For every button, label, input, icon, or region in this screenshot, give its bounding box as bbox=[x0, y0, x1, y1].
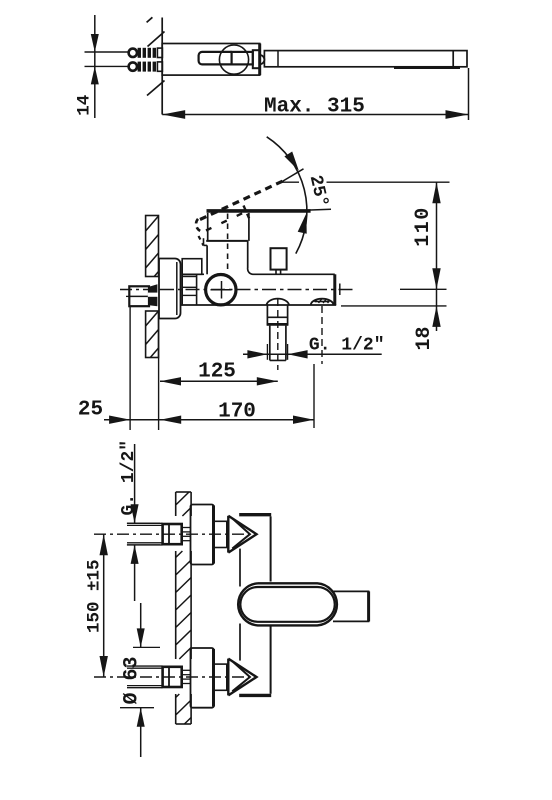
middle body centerline bbox=[120, 289, 160, 291]
top view wall tick upper bbox=[148, 32, 165, 47]
g12b line lower bbox=[134, 545, 136, 601]
arc arrow upper bbox=[284, 152, 299, 171]
bottom oval outer bbox=[238, 583, 337, 625]
ext line x314 bbox=[313, 364, 315, 428]
svg-text:110: 110 bbox=[412, 206, 435, 247]
dim110 top ext b bbox=[327, 181, 450, 183]
svg-text:G. 1/2": G. 1/2" bbox=[119, 440, 139, 516]
svg-text:170: 170 bbox=[218, 401, 256, 424]
g12b arrow lower bbox=[131, 545, 139, 564]
dim170 arrow right bbox=[293, 416, 314, 424]
svg-text:18: 18 bbox=[413, 326, 436, 350]
top view handle rod bbox=[199, 52, 232, 65]
dim63 line lower bbox=[140, 708, 142, 757]
middle wall strip lower bbox=[146, 311, 159, 358]
bottom body left edge upper bbox=[239, 549, 241, 587]
middle body end cap thick bbox=[333, 274, 336, 305]
top view spout inner line bbox=[277, 51, 279, 67]
middle outlet ext right bbox=[287, 344, 289, 360]
dim150 line bbox=[103, 534, 105, 677]
g12b arrow upper bbox=[131, 504, 139, 523]
dim25 arrow bbox=[109, 416, 130, 424]
middle union nut tick bbox=[126, 295, 129, 297]
dim max315 line bbox=[162, 114, 468, 116]
middle handle block left bbox=[207, 213, 209, 241]
bottom body right edge upper bbox=[270, 516, 272, 581]
g12mid arrow right bbox=[288, 350, 308, 358]
middle housing left edge bbox=[196, 274, 198, 305]
dim63 arrow upper bbox=[137, 628, 145, 647]
bottom union pipe+nut bottom bbox=[127, 665, 163, 667]
dim63 arrow lower bbox=[137, 708, 145, 727]
g12b line upper bbox=[134, 444, 136, 523]
middle outlet pipe bbox=[269, 326, 271, 361]
top view wall tick small top bbox=[147, 17, 153, 22]
dim 14 ext line upper bbox=[85, 51, 131, 53]
bottom union centerline top bbox=[94, 533, 250, 535]
bottom wall strip left edge bbox=[175, 492, 177, 516]
dashed lever right edge bbox=[244, 206, 251, 222]
arc 25deg bbox=[267, 137, 307, 254]
bottom oval inner bbox=[240, 587, 334, 622]
middle column right edge bbox=[247, 241, 249, 268]
dim max315 right ext bbox=[468, 68, 470, 120]
middle plug centerline dashed bbox=[321, 306, 323, 364]
dim63 ext lower bbox=[120, 707, 154, 709]
svg-text:14: 14 bbox=[75, 95, 95, 116]
top view handle block bbox=[232, 52, 253, 65]
middle diverter knob bbox=[271, 248, 287, 269]
middle escutcheon bbox=[159, 259, 181, 319]
dim18 bottom ext bbox=[341, 305, 447, 307]
middle plug boss bbox=[311, 299, 334, 305]
middle body end tick bbox=[339, 284, 341, 296]
g12mid line bbox=[243, 353, 382, 355]
dim63 line upper bbox=[140, 603, 142, 647]
middle handle block bottom bbox=[206, 240, 248, 242]
middle outlet block bottom thick bbox=[267, 323, 288, 326]
bottom union neck top bbox=[214, 520, 229, 522]
top view inlet stub 2 bbox=[129, 62, 137, 70]
middle lever thick bbox=[207, 209, 311, 213]
bottom wall hatching bbox=[176, 492, 189, 505]
top view body outline bbox=[162, 44, 260, 76]
middle diverter stem bbox=[275, 270, 277, 275]
bottom flange bottom bbox=[191, 648, 214, 708]
middle handle axis dashed bbox=[227, 214, 229, 274]
svg-text:Ø 63: Ø 63 bbox=[121, 656, 144, 704]
dim150 arrow bottom bbox=[100, 656, 108, 677]
middle union nut bbox=[129, 286, 149, 306]
svg-text:25: 25 bbox=[78, 399, 103, 422]
dim110 right centerline ext bbox=[400, 288, 447, 290]
top view inlet stub 1 bbox=[129, 49, 137, 57]
top view spout bbox=[264, 51, 467, 67]
bottom body left edge lower bbox=[239, 624, 241, 661]
middle wall hatching lower bbox=[146, 311, 159, 326]
dim110 arrow bottom bbox=[432, 268, 440, 289]
middle body top edge right bbox=[248, 268, 335, 274]
middle union olive bbox=[149, 284, 157, 306]
top view wall tick lower bbox=[147, 81, 165, 96]
svg-text:G. 1/2": G. 1/2" bbox=[309, 336, 385, 356]
bottom body right edge lower bbox=[270, 626, 272, 694]
solid lever extension line bbox=[304, 209, 331, 210]
svg-text:150 ±15: 150 ±15 bbox=[85, 559, 105, 633]
top view handle cap bbox=[253, 50, 260, 68]
dim18 arrow bbox=[432, 306, 440, 327]
g12b ext lower bbox=[127, 544, 160, 546]
middle cartridge cross v bbox=[221, 281, 223, 299]
svg-text:Max. 315: Max. 315 bbox=[264, 96, 365, 119]
dim170 line bbox=[104, 419, 314, 421]
middle wall hatching upper bbox=[146, 216, 159, 231]
dim125 line bbox=[160, 380, 278, 382]
dashed lever bottom edge bbox=[206, 212, 246, 231]
bottom body bottom bar thick bbox=[239, 694, 271, 697]
top view spout under-edge thick bbox=[394, 66, 460, 69]
dim max315 arrow right bbox=[446, 110, 469, 119]
dim 14 ext line lower bbox=[85, 65, 131, 67]
bottom flange top bbox=[191, 505, 214, 565]
bottom oval right rect bbox=[333, 590, 369, 592]
dim150 arrow top bbox=[100, 534, 108, 555]
ext line x130 bbox=[129, 307, 131, 431]
bottom union cone bottom bbox=[227, 659, 229, 696]
dim 14 arrow lower bbox=[91, 66, 99, 84]
dim 14 line bbox=[94, 15, 96, 118]
middle cartridge cross h bbox=[211, 289, 232, 291]
dim170 arrow left bbox=[160, 416, 181, 424]
middle column left edge bbox=[206, 245, 208, 274]
bottom flange top right edge thick bbox=[212, 506, 215, 564]
dim125 arrow left bbox=[160, 377, 181, 385]
bottom body top bar thick bbox=[239, 513, 271, 516]
dim18 line bbox=[436, 289, 438, 331]
dim max315 arrow left bbox=[162, 110, 185, 119]
dashed lever lower-left bits bbox=[199, 236, 204, 246]
arc arrow lower bbox=[298, 213, 307, 234]
middle cartridge ring bbox=[206, 275, 236, 305]
top view body right edge thick bbox=[258, 44, 261, 76]
middle upper small box bbox=[182, 259, 202, 275]
dim110 top ext a bbox=[280, 181, 299, 183]
dim 14 arrow upper bbox=[91, 34, 99, 52]
dim63 ext upper bbox=[133, 646, 160, 648]
dashed lever end arc bbox=[196, 217, 200, 231]
bottom union neck bottom bbox=[214, 663, 229, 665]
bottom wall strip right edge bbox=[190, 492, 192, 516]
bottom union pipe+nut top bbox=[127, 522, 163, 524]
middle handle block right bbox=[248, 213, 250, 241]
bottom union cone top bbox=[227, 516, 229, 553]
dashed lever top edge bbox=[200, 180, 285, 220]
middle body bottom edge bbox=[181, 304, 337, 306]
middle outlet dome bbox=[267, 299, 290, 305]
g12b ext upper bbox=[127, 522, 160, 524]
middle union nut facet bbox=[129, 295, 149, 297]
middle outlet block bbox=[266, 305, 268, 326]
dim110 line bbox=[436, 182, 438, 289]
dim110 arrow top bbox=[432, 182, 440, 203]
top view cartridge circle bbox=[219, 45, 248, 74]
g12mid arrow left bbox=[247, 350, 267, 358]
middle body top edge left bbox=[197, 273, 204, 275]
tilted lever extension line bbox=[281, 169, 304, 183]
bottom flange bottom right edge thick bbox=[212, 649, 215, 707]
top view spout nub bbox=[260, 55, 265, 64]
middle column lip bbox=[203, 238, 205, 245]
bottom wall strip caps bbox=[176, 491, 191, 493]
middle outlet centerline dashed bbox=[277, 299, 279, 370]
top view spout tip line bbox=[452, 51, 454, 67]
ext line x158 bbox=[158, 311, 160, 430]
top view wall line bbox=[161, 18, 163, 115]
middle inlet box bbox=[182, 275, 196, 277]
middle outlet ext left bbox=[266, 344, 268, 360]
svg-text:125: 125 bbox=[198, 361, 236, 384]
middle escutcheon inner line bbox=[176, 262, 178, 315]
dim125 arrow right bbox=[257, 377, 278, 385]
bottom union centerline bottom bbox=[94, 676, 250, 678]
middle wall strip upper bbox=[146, 216, 159, 277]
